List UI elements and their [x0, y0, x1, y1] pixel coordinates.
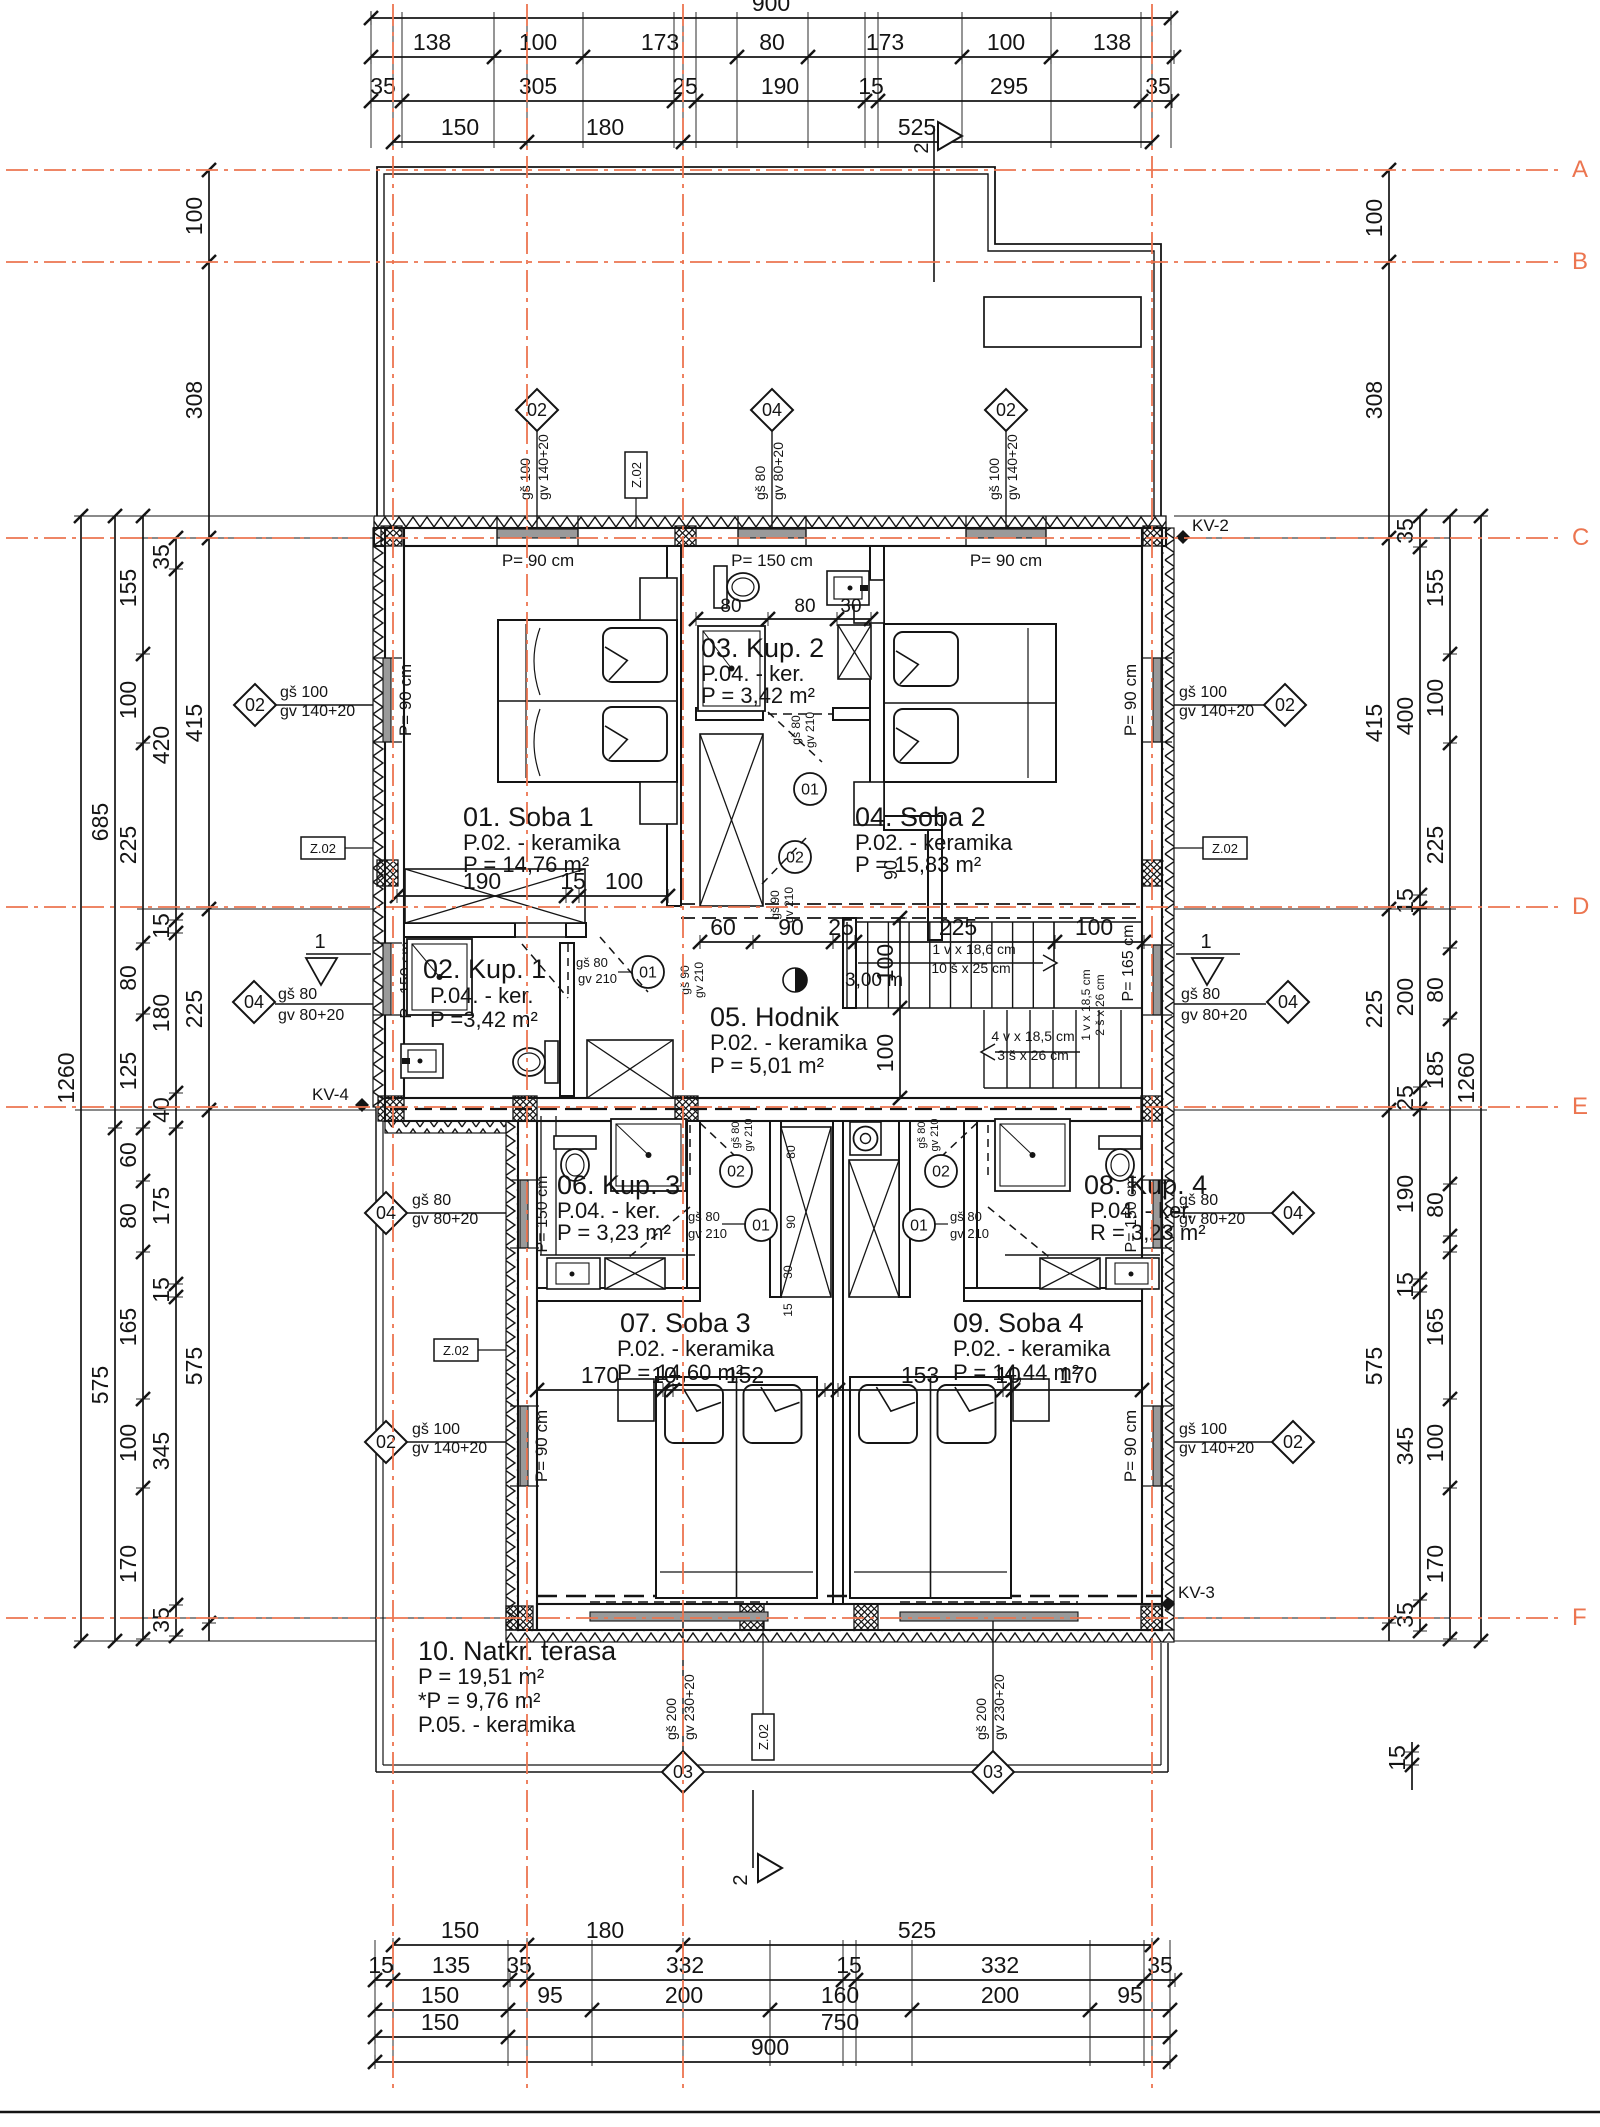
- svg-text:165: 165: [115, 1308, 141, 1346]
- svg-text:160: 160: [821, 1982, 859, 2008]
- concrete column: [740, 1604, 764, 1630]
- shower Kup4: [995, 1119, 1070, 1191]
- wall Soba2 nook south: [884, 816, 942, 830]
- nightstand Soba2 bottom: [854, 782, 884, 825]
- svg-text:P = 15,83 m²: P = 15,83 m²: [855, 852, 981, 877]
- svg-text:gš 80: gš 80: [278, 986, 317, 1003]
- svg-text:525: 525: [898, 114, 936, 140]
- svg-text:170: 170: [581, 1362, 619, 1388]
- svg-text:175: 175: [148, 1187, 174, 1225]
- shaft wall left of center: [770, 1121, 781, 1297]
- exterior wall top (C) insulation: [374, 516, 1166, 528]
- svg-text:15: 15: [1384, 1745, 1410, 1771]
- svg-text:35: 35: [370, 73, 396, 99]
- wall Soba2 nook west: [928, 830, 942, 940]
- svg-text:225: 225: [181, 990, 207, 1028]
- svg-text:02: 02: [932, 1164, 950, 1181]
- svg-text:35: 35: [1145, 73, 1171, 99]
- terrace opening marker 03 right: [992, 1621, 994, 1753]
- bottom dimension row 150-180-525: [393, 1944, 1152, 1946]
- exterior wall top (C) body: [374, 528, 1166, 546]
- svg-text:415: 415: [1361, 704, 1387, 742]
- svg-text:03: 03: [983, 1762, 1003, 1782]
- svg-text:KV-4: KV-4: [312, 1085, 349, 1104]
- exterior wall right insulation: [1162, 528, 1174, 1630]
- svg-text:gš 100: gš 100: [412, 1421, 460, 1438]
- exterior wall bottom (F) insulation: [506, 1630, 1174, 1642]
- wardrobe hodnik tall: [700, 734, 763, 906]
- svg-text:575: 575: [181, 1347, 207, 1385]
- svg-text:1: 1: [1200, 931, 1211, 953]
- concrete column: [1141, 1096, 1162, 1121]
- svg-text:138: 138: [1093, 29, 1131, 55]
- facade opening marker 04 lower-right: [1174, 1212, 1272, 1214]
- concrete column: [377, 860, 398, 886]
- svg-text:305: 305: [519, 73, 557, 99]
- svg-text:gv 80+20: gv 80+20: [278, 1007, 344, 1024]
- upper storey outline outer: [377, 167, 1161, 516]
- concrete column: [378, 1096, 404, 1121]
- marker KV-4: [355, 1098, 369, 1112]
- exterior wall bottom (F) body: [537, 1604, 1162, 1630]
- door marker 02 Soba3: [720, 1155, 752, 1187]
- svg-text:60: 60: [115, 1142, 141, 1168]
- svg-text:B: B: [1572, 248, 1588, 275]
- stairs upper flight treads: [846, 922, 848, 1008]
- svg-text:gš 100: gš 100: [986, 458, 1002, 500]
- stairs walk line upper: [858, 962, 1043, 964]
- svg-text:100: 100: [1075, 914, 1113, 940]
- grid axis vertical 1: [392, 4, 394, 2090]
- svg-text:07. Soba 3: 07. Soba 3: [620, 1308, 751, 1338]
- svg-text:900: 900: [751, 2034, 789, 2060]
- toilet Kup4: [1099, 1136, 1141, 1181]
- stairs edges: [856, 921, 1142, 923]
- boiler square: [850, 1122, 881, 1155]
- svg-text:295: 295: [990, 73, 1028, 99]
- shaft x-box lower right: [849, 1160, 899, 1297]
- svg-text:525: 525: [898, 1917, 936, 1943]
- bed Soba 1: [498, 620, 677, 782]
- svg-text:35: 35: [1392, 518, 1418, 544]
- nightstand Soba2 top: [854, 580, 884, 623]
- svg-text:15: 15: [1392, 1272, 1418, 1298]
- window top P=90 (Soba2): [966, 529, 1046, 538]
- svg-text:100: 100: [605, 868, 643, 894]
- svg-text:gš 80: gš 80: [576, 955, 608, 970]
- svg-text:P= 90 cm: P= 90 cm: [502, 551, 574, 570]
- svg-text:gš 100: gš 100: [517, 458, 533, 500]
- exterior wall right body: [1142, 528, 1162, 1630]
- svg-text:gv 80+20: gv 80+20: [412, 1211, 478, 1228]
- svg-text:F: F: [1572, 1604, 1587, 1631]
- top dimension row 900: [371, 17, 1171, 19]
- bed Soba 3: [656, 1377, 817, 1598]
- vertical mini dims at stairs: [899, 918, 901, 1098]
- svg-text:153: 153: [901, 1362, 939, 1388]
- svg-text:190: 190: [761, 73, 799, 99]
- svg-text:40: 40: [148, 1097, 174, 1123]
- svg-text:P = 14,76 m²: P = 14,76 m²: [463, 852, 589, 877]
- svg-text:225: 225: [1361, 990, 1387, 1028]
- svg-text:01: 01: [639, 965, 657, 982]
- bottom sheet border line: [0, 2111, 1600, 2114]
- svg-text:gv 210: gv 210: [692, 962, 706, 998]
- svg-text:gš 90: gš 90: [768, 890, 782, 920]
- svg-text:R = 3,23 m²: R = 3,23 m²: [1090, 1220, 1206, 1245]
- svg-text:gš 80: gš 80: [950, 1209, 982, 1224]
- left dimension chain 1260: [80, 516, 82, 1641]
- door marker 01 Kup2: [794, 773, 826, 805]
- svg-text:750: 750: [821, 2009, 859, 2035]
- top dimension row 150-180-525: [393, 141, 1152, 143]
- grid axis vertical 2: [526, 4, 528, 2090]
- svg-text:2 š x 26 cm: 2 š x 26 cm: [1093, 974, 1107, 1035]
- upper storey recess rectangle: [984, 297, 1141, 347]
- left dimension chain 100-308-415-225-575: [208, 170, 210, 1641]
- svg-text:15: 15: [148, 1277, 174, 1303]
- svg-text:4 v x 18,5 cm: 4 v x 18,5 cm: [991, 1028, 1074, 1044]
- svg-text:900: 900: [752, 0, 790, 16]
- top dimension extension lines: [370, 12, 372, 148]
- svg-text:gv 230+20: gv 230+20: [991, 1674, 1007, 1740]
- svg-text:90: 90: [784, 1215, 798, 1229]
- svg-text:gš 100: gš 100: [1179, 684, 1227, 701]
- concrete column: [381, 526, 402, 546]
- dim row inside Soba1 190-15-100: [397, 895, 668, 897]
- svg-text:35: 35: [148, 1607, 174, 1633]
- facade opening marker 02 left: [276, 704, 373, 706]
- svg-text:gv 210: gv 210: [578, 971, 617, 986]
- dashed overhead wall at D over stairs: [681, 903, 1142, 905]
- wall divider Soba3|Soba4: [833, 1121, 843, 1604]
- grid axis C: [6, 537, 1562, 539]
- toilet Kup3: [554, 1136, 596, 1181]
- facade opening marker 04 top-mid: [771, 431, 773, 528]
- svg-text:gš 200: gš 200: [663, 1698, 679, 1740]
- toilet Kup2: [714, 566, 759, 608]
- svg-text:Z.02: Z.02: [629, 462, 644, 488]
- facade opening marker 02 lower-right: [1174, 1441, 1272, 1443]
- svg-text:10. Natkr. terasa: 10. Natkr. terasa: [418, 1636, 617, 1666]
- svg-text:04: 04: [1283, 1203, 1303, 1223]
- svg-text:P =3,42 m²: P =3,42 m²: [430, 1007, 538, 1032]
- svg-text:2: 2: [730, 1874, 752, 1885]
- svg-text:125: 125: [115, 1052, 141, 1090]
- svg-text:05. Hodnik: 05. Hodnik: [710, 1002, 840, 1032]
- wall Kup4 west: [964, 1121, 977, 1301]
- nightstand Soba3: [618, 1379, 654, 1421]
- window top P=90 (Soba1): [497, 529, 578, 538]
- terrace sliding door 1: [590, 1612, 768, 1621]
- svg-text:200: 200: [665, 1982, 703, 2008]
- window right P=150 (Kup4): [1153, 1180, 1161, 1248]
- svg-text:345: 345: [1392, 1427, 1418, 1465]
- svg-text:gš 200: gš 200: [973, 1698, 989, 1740]
- svg-text:100: 100: [519, 29, 557, 55]
- Kup2 dim row 80-80-30: [696, 618, 871, 620]
- grid axis E: [6, 1106, 1562, 1108]
- svg-text:03. Kup. 2: 03. Kup. 2: [701, 633, 824, 663]
- svg-text:80: 80: [115, 1203, 141, 1229]
- nightstand Soba1 bottom: [640, 782, 677, 824]
- svg-text:P= 90 cm: P= 90 cm: [1121, 1410, 1140, 1482]
- svg-text:A: A: [1572, 156, 1588, 183]
- nightstand Soba1 top: [640, 578, 677, 620]
- right dimension chain 35-400-15-200-25-190-15-345-35: [1419, 516, 1421, 1631]
- exterior wall left upper insulation: [373, 528, 385, 1107]
- terrace sliding door 2: [900, 1612, 1078, 1621]
- door marker 02 Soba4: [925, 1155, 957, 1187]
- svg-text:100: 100: [1361, 199, 1387, 237]
- svg-text:173: 173: [866, 29, 904, 55]
- stairs dim row 60-90-25-225-100: [700, 941, 1144, 943]
- svg-text:gv 140+20: gv 140+20: [1179, 703, 1254, 720]
- svg-text:100: 100: [115, 681, 141, 719]
- door marker 02 hodnik: [779, 841, 811, 873]
- svg-text:gv 80+20: gv 80+20: [770, 442, 786, 500]
- window left P=90 (Soba1): [383, 658, 391, 742]
- grid axis A: [6, 169, 1562, 171]
- svg-text:gš 80: gš 80: [916, 1122, 928, 1149]
- svg-text:100: 100: [181, 197, 207, 235]
- svg-text:15: 15: [1392, 888, 1418, 914]
- bottom dimension row 150-750: [375, 2036, 1170, 2038]
- svg-text:2: 2: [911, 142, 933, 153]
- svg-text:35: 35: [1392, 1602, 1418, 1628]
- svg-text:60: 60: [710, 914, 736, 940]
- svg-text:Z.02: Z.02: [1212, 841, 1238, 856]
- concrete column: [513, 1096, 537, 1121]
- svg-text:150: 150: [421, 1982, 459, 2008]
- bed Soba 2: [884, 624, 1056, 782]
- svg-text:P.05. - keramika: P.05. - keramika: [418, 1712, 576, 1737]
- svg-text:gš 80: gš 80: [688, 1209, 720, 1224]
- svg-text:685: 685: [87, 803, 113, 841]
- right small dim 15 below F: [1411, 1742, 1413, 1790]
- svg-text:180: 180: [148, 994, 174, 1032]
- svg-text:06. Kup. 3: 06. Kup. 3: [557, 1170, 680, 1200]
- svg-text:P = 14,60 m²: P = 14,60 m²: [617, 1360, 743, 1385]
- wardrobe hodnik small: [587, 1040, 673, 1098]
- svg-text:3,00 m: 3,00 m: [845, 970, 903, 991]
- svg-text:KV-3: KV-3: [1178, 1583, 1215, 1602]
- wall Kup1 north: [404, 923, 515, 937]
- svg-text:P= 165 cm: P= 165 cm: [1120, 925, 1137, 1002]
- svg-text:01: 01: [752, 1218, 770, 1235]
- insulation under E wall above terrace: [385, 1121, 506, 1133]
- svg-text:3 š x 26 cm: 3 š x 26 cm: [997, 1047, 1069, 1063]
- svg-text:100: 100: [987, 29, 1025, 55]
- svg-text:P = 5,01 m²: P = 5,01 m²: [710, 1053, 824, 1078]
- svg-text:P.02. - keramika: P.02. - keramika: [953, 1336, 1111, 1361]
- window left-lower P=150 (Kup3): [520, 1180, 528, 1248]
- right dimension chain 1260: [1480, 516, 1482, 1641]
- svg-text:1 v x 18,6 cm: 1 v x 18,6 cm: [932, 941, 1015, 957]
- svg-text:100: 100: [872, 1034, 898, 1072]
- svg-text:80: 80: [1422, 1192, 1448, 1218]
- exterior wall left lower body: [518, 1119, 537, 1630]
- terrace outline left: [375, 1107, 377, 1772]
- window left P=150 (Kup1): [383, 943, 391, 1015]
- sink Kup2: [827, 571, 869, 605]
- window right P=90 (Soba2): [1153, 658, 1161, 742]
- wall Soba1 | Kup2/hodnik: [667, 546, 681, 906]
- right dimension extension lines: [1174, 515, 1487, 517]
- Kup3 furring lines: [540, 1116, 542, 1255]
- svg-text:155: 155: [1422, 569, 1448, 607]
- left dimension chain 685-575: [114, 516, 116, 1641]
- svg-text:200: 200: [981, 1982, 1019, 2008]
- facade opening marker 04 left (Kup1): [275, 1003, 373, 1005]
- svg-text:150: 150: [441, 1917, 479, 1943]
- svg-text:02: 02: [1275, 695, 1295, 715]
- svg-text:15: 15: [148, 913, 174, 939]
- svg-text:225: 225: [939, 914, 977, 940]
- shower Kup3: [611, 1119, 686, 1191]
- section marker 1 left: [306, 953, 371, 955]
- svg-text:200: 200: [1392, 978, 1418, 1016]
- left dimension chain 35-420-15-180-40-175-15-345-35: [175, 538, 177, 1636]
- svg-text:09. Soba 4: 09. Soba 4: [953, 1308, 1084, 1338]
- grid axis B: [6, 261, 1562, 263]
- svg-text:gš 80: gš 80: [752, 466, 768, 500]
- svg-text:gv 140+20: gv 140+20: [412, 1440, 487, 1457]
- concrete column: [1143, 526, 1162, 546]
- svg-text:1260: 1260: [53, 1052, 79, 1103]
- svg-text:15: 15: [836, 1952, 862, 1978]
- svg-text:gš 80: gš 80: [789, 715, 803, 745]
- svg-text:170: 170: [115, 1545, 141, 1583]
- door marker 01 Kup4: [903, 1209, 935, 1241]
- wall Kup4 south: [964, 1288, 1142, 1301]
- svg-text:*P = 9,76 m²: *P = 9,76 m²: [418, 1688, 541, 1713]
- level marker 3,00 m: [783, 968, 807, 992]
- dim row Soba3/4 170-10-152-153-10-170: [537, 1389, 1142, 1391]
- wall stairwell west: [843, 918, 856, 1008]
- svg-text:173: 173: [641, 29, 679, 55]
- bottom dimension row 15-135-35-332-15-332-35: [375, 1979, 1175, 1981]
- shower Kup1: [407, 939, 472, 1015]
- svg-text:P = 3,23 m²: P = 3,23 m²: [557, 1220, 671, 1245]
- svg-text:D: D: [1572, 893, 1589, 920]
- svg-text:02: 02: [245, 695, 265, 715]
- svg-text:100: 100: [1422, 679, 1448, 717]
- svg-text:gv 140+20: gv 140+20: [1179, 1440, 1254, 1457]
- sink Kup1: [401, 1044, 443, 1078]
- svg-text:345: 345: [148, 1432, 174, 1470]
- svg-text:575: 575: [87, 1366, 113, 1404]
- svg-text:C: C: [1572, 524, 1589, 551]
- svg-text:95: 95: [1117, 1982, 1143, 2008]
- svg-text:138: 138: [413, 29, 451, 55]
- svg-text:30: 30: [840, 596, 861, 617]
- bed Soba 4: [850, 1377, 1011, 1598]
- svg-text:04. Soba 2: 04. Soba 2: [855, 802, 986, 832]
- wall Kup3 east: [687, 1121, 700, 1301]
- concrete column: [854, 1604, 878, 1630]
- svg-text:35: 35: [1147, 1952, 1173, 1978]
- svg-text:180: 180: [586, 114, 624, 140]
- svg-text:gv 210: gv 210: [782, 887, 796, 923]
- shaft x-box beside Kup2: [838, 625, 871, 679]
- wall Kup2 | Soba2: [870, 546, 884, 823]
- svg-text:190: 190: [1392, 1175, 1418, 1213]
- svg-text:04: 04: [762, 400, 782, 420]
- wall Kup1 east: [560, 943, 574, 1096]
- svg-text:308: 308: [181, 381, 207, 419]
- svg-text:P = 14,44 m²: P = 14,44 m²: [953, 1360, 1079, 1385]
- svg-text:gš 100: gš 100: [1179, 1421, 1227, 1438]
- toilet Kup1: [513, 1041, 558, 1083]
- section marker 1 right: [1176, 953, 1240, 955]
- facade opening marker 02 top-right: [1005, 431, 1007, 528]
- bottom dimension extension lines: [374, 1940, 376, 2066]
- svg-text:P.04. - ker.: P.04. - ker.: [430, 983, 534, 1008]
- svg-text:gv 210: gv 210: [929, 1118, 941, 1151]
- facade opening marker 04 lower-left: [407, 1212, 506, 1214]
- top dimension row 35-305-25-190-15-295-35: [371, 100, 1172, 102]
- svg-text:01: 01: [801, 782, 819, 799]
- left dimension chain 155-100-225-80-125-60-80-165-100-170: [142, 516, 144, 1639]
- svg-text:80: 80: [784, 1145, 798, 1159]
- svg-text:P= 90 cm: P= 90 cm: [1121, 664, 1140, 736]
- shaft wall right of center: [899, 1121, 910, 1297]
- facade opening marker 02 lower-left: [407, 1441, 506, 1443]
- svg-text:gš 80: gš 80: [730, 1122, 742, 1149]
- svg-text:02: 02: [996, 400, 1016, 420]
- svg-text:575: 575: [1361, 1347, 1387, 1385]
- terrace outline bottom: [376, 1771, 1168, 1773]
- svg-text:gv 210: gv 210: [743, 1118, 755, 1151]
- wall Kup2 south segments + door: [696, 708, 763, 720]
- svg-text:185: 185: [1422, 1051, 1448, 1089]
- svg-text:135: 135: [432, 1952, 470, 1978]
- grid axis vertical 4: [1151, 4, 1153, 2090]
- svg-text:100: 100: [1422, 1424, 1448, 1462]
- bottom dimension row 150-95-200-160-200-95: [375, 2009, 1170, 2011]
- svg-text:10 š x 25 cm: 10 š x 25 cm: [931, 960, 1010, 976]
- svg-text:04: 04: [1278, 992, 1298, 1012]
- svg-text:155: 155: [115, 569, 141, 607]
- svg-text:08. Kup. 4: 08. Kup. 4: [1084, 1170, 1207, 1200]
- svg-text:420: 420: [148, 726, 174, 764]
- shaft x-box lower left: [781, 1127, 831, 1297]
- sink cabinet row Kup4: [1005, 1254, 1160, 1256]
- svg-text:P= 150 cm: P= 150 cm: [534, 1176, 551, 1253]
- svg-text:35: 35: [148, 544, 174, 570]
- concrete column: [675, 1096, 698, 1121]
- top dimension row 138-100-173-80-173-100-138: [371, 56, 1174, 58]
- svg-text:P.02. - keramika: P.02. - keramika: [710, 1030, 868, 1055]
- nightstand Soba4: [1013, 1379, 1049, 1421]
- svg-text:15: 15: [781, 1303, 795, 1317]
- svg-text:E: E: [1572, 1093, 1588, 1120]
- Z.02 label right: [1203, 837, 1247, 859]
- svg-text:150: 150: [421, 2009, 459, 2035]
- svg-text:80: 80: [759, 29, 785, 55]
- exterior wall left lower insulation: [506, 1119, 518, 1630]
- right dimension chain 100-308-415-225-575: [1388, 170, 1390, 1641]
- shower Kup2: [698, 626, 765, 711]
- svg-text:02: 02: [1283, 1432, 1303, 1452]
- Z.02 label top: [625, 452, 647, 498]
- sink cabinet row Kup3: [540, 1254, 695, 1256]
- svg-text:25: 25: [672, 73, 698, 99]
- svg-text:80: 80: [720, 596, 741, 617]
- svg-text:100: 100: [115, 1424, 141, 1462]
- svg-text:P.02. - keramika: P.02. - keramika: [617, 1336, 775, 1361]
